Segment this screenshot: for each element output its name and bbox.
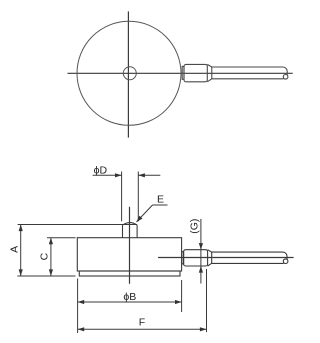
svg-text:(G): (G) [188,219,200,234]
svg-text:E: E [157,193,164,205]
svg-text:C: C [39,252,51,260]
svg-text:ϕD: ϕD [94,164,108,176]
svg-text:ϕB: ϕB [123,291,136,303]
svg-text:F: F [139,317,145,329]
svg-text:A: A [9,246,21,253]
